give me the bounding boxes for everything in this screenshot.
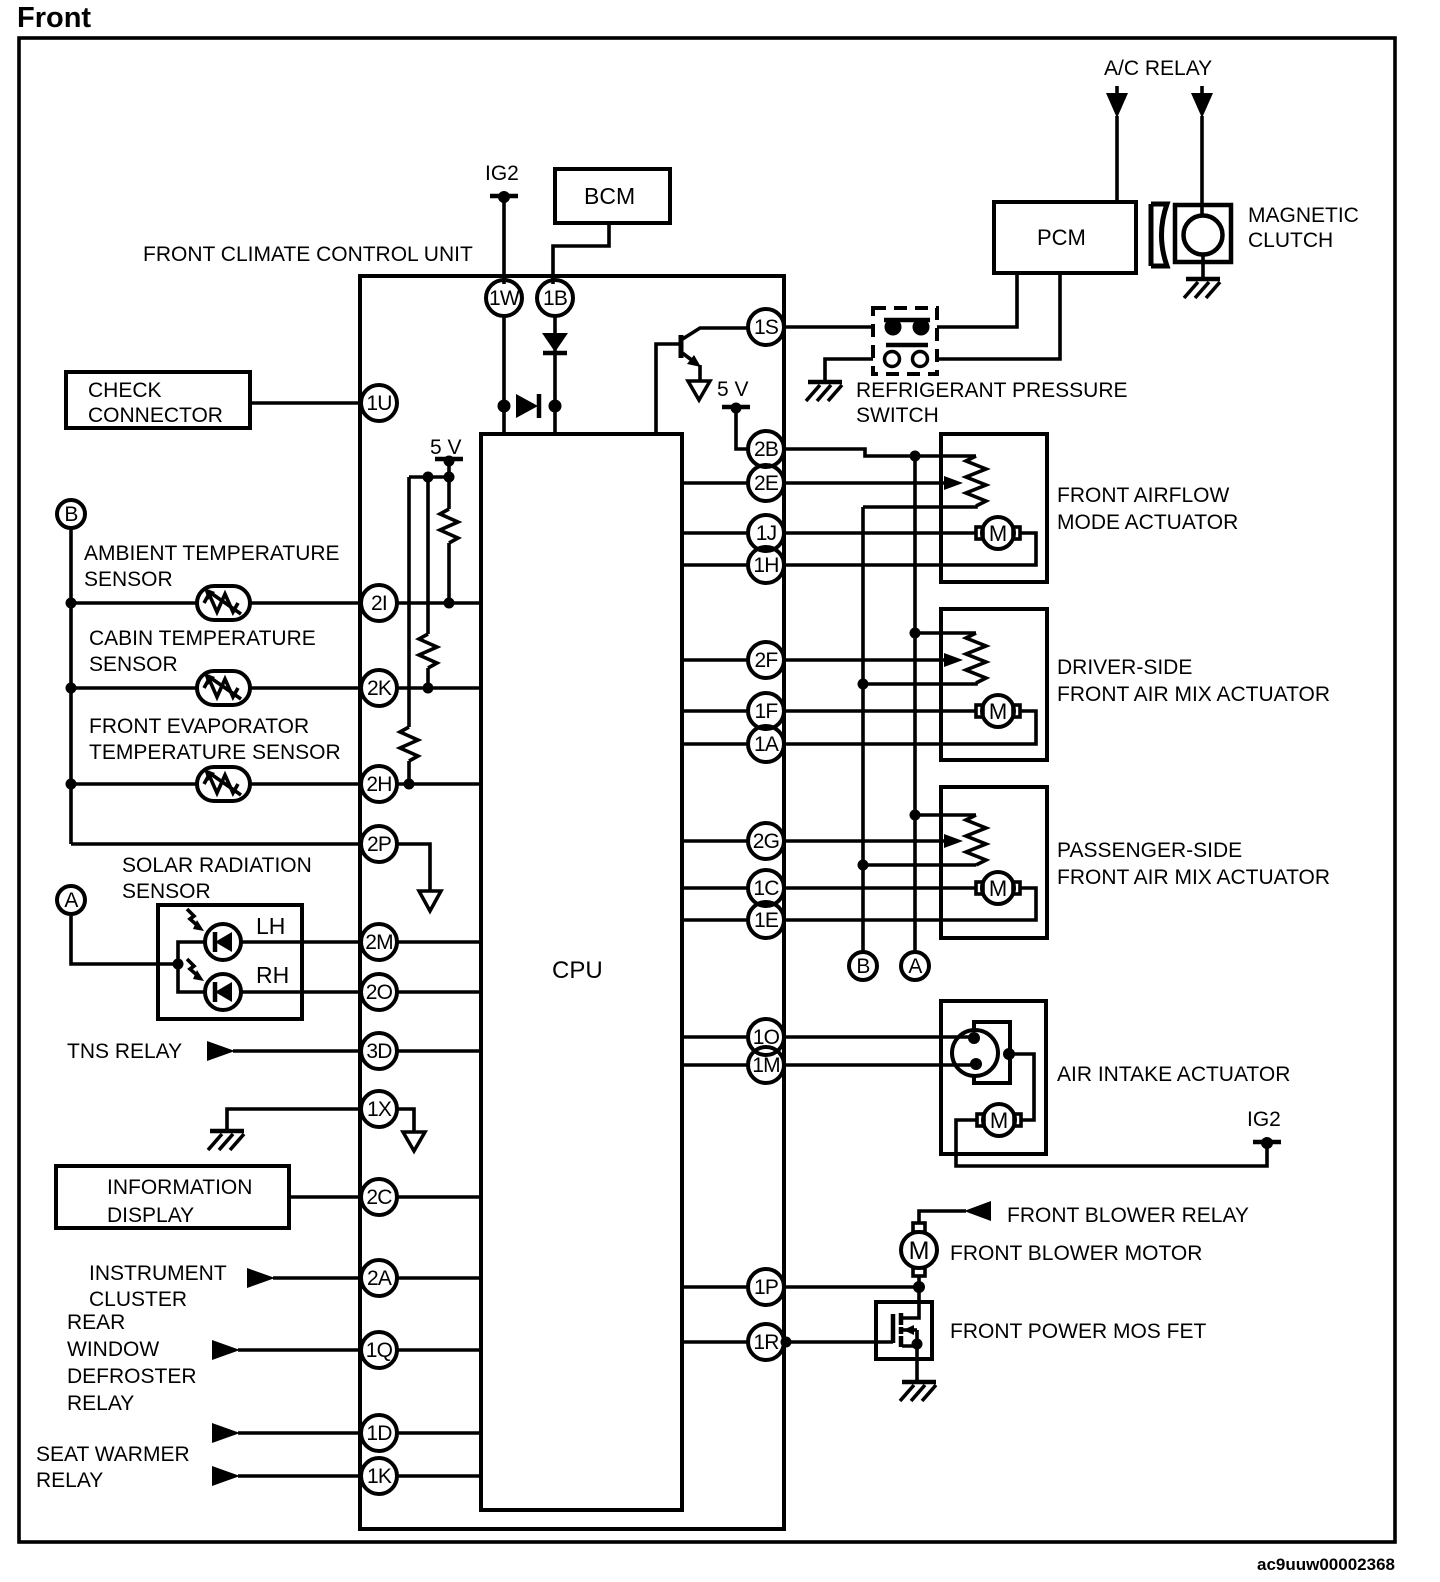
svg-text:1P: 1P [754, 1276, 778, 1299]
wire pressure switch to PCM (lower) [937, 273, 1060, 359]
label diagram code [1257, 1555, 1395, 1574]
svg-text:SOLAR RADIATION: SOLAR RADIATION [122, 854, 312, 877]
MOSFET Q2 [893, 1302, 923, 1382]
label front evaporator temperature sensor [89, 715, 341, 764]
svg-text:PASSENGER-SIDE: PASSENGER-SIDE [1057, 839, 1242, 862]
photodiode LH [187, 909, 241, 960]
potentiometer (driver-side air mix actuator) [863, 633, 986, 684]
power 5V (to 2B) [717, 378, 750, 414]
svg-text:IG2: IG2 [1247, 1108, 1281, 1131]
svg-text:CPU: CPU [552, 957, 603, 984]
svg-text:SWITCH: SWITCH [856, 404, 939, 427]
arrow instrument cluster [247, 1268, 275, 1288]
pressure switch upper contacts (closed) [884, 319, 930, 336]
node B (bus bottom) [849, 952, 877, 980]
wire to 1D [238, 1431, 362, 1435]
label refrigerant pressure switch [856, 379, 1128, 427]
check connector box [66, 372, 250, 428]
position switch housing (air intake actuator) [974, 1022, 1010, 1083]
pin 2P [361, 826, 397, 862]
svg-text:WINDOW: WINDOW [67, 1338, 159, 1361]
wire 1J to motor [782, 531, 976, 535]
wire bus A (vertical) [910, 456, 921, 952]
wire RH to 2O [240, 990, 362, 994]
svg-text:SENSOR: SENSOR [122, 880, 211, 903]
wire 1O to position switch [782, 1035, 974, 1039]
wire B to ambient sensor [71, 601, 198, 605]
svg-text:Front: Front [17, 2, 91, 34]
power 5V (internal pull-ups) [409, 436, 463, 483]
pin 2B [748, 431, 784, 467]
pin 2H [361, 766, 397, 802]
wire 1W to CPU [502, 315, 506, 434]
ground (open triangle below Q1 emitter) [688, 381, 710, 400]
svg-text:1S: 1S [754, 316, 779, 339]
wire B bus down [66, 528, 77, 844]
power IG2 (air intake) [1247, 1108, 1281, 1149]
front power MOS FET box [876, 1302, 932, 1359]
wire cabin sensor to 2K [250, 686, 362, 690]
power IG2 (top) [485, 162, 519, 203]
wire 1F to CPU [682, 709, 749, 713]
label solar radiation sensor [122, 854, 312, 903]
svg-text:2E: 2E [754, 472, 779, 495]
wire 1P to CPU [682, 1285, 749, 1289]
diode D2 (horizontal 1W to 1B) [498, 394, 562, 418]
motor M (front blower motor) [901, 1223, 937, 1276]
svg-text:1M: 1M [752, 1054, 780, 1077]
pin 1F [748, 693, 784, 729]
svg-text:FRONT AIR MIX ACTUATOR: FRONT AIR MIX ACTUATOR [1057, 683, 1330, 706]
svg-text:SENSOR: SENSOR [89, 653, 178, 676]
arrow seat warmer relay (1K) [212, 1466, 240, 1486]
svg-text:5 V: 5 V [430, 436, 462, 459]
ground (MOS FET source) [900, 1382, 936, 1401]
photodiode RH [187, 959, 241, 1010]
wire pressure switch to PCM (upper) [937, 273, 1017, 327]
arrow front blower relay [964, 1201, 991, 1221]
svg-text:SEAT WARMER: SEAT WARMER [36, 1443, 190, 1466]
resistor R1 (pull-up to 2I) [440, 477, 458, 609]
wire 2G wiper [782, 834, 963, 848]
wire 1H to motor [782, 533, 1036, 565]
svg-text:DEFROSTER: DEFROSTER [67, 1365, 197, 1388]
pin 1C [748, 870, 784, 906]
wire 2F to CPU [682, 658, 749, 662]
wire 1E to motor [782, 888, 1036, 920]
svg-text:2B: 2B [754, 438, 778, 461]
thermistor (cabin temperature sensor) [197, 671, 250, 705]
wire 1P to blower motor [782, 1285, 919, 1289]
wire BCM to 1B [553, 223, 609, 284]
wire blower motor to MOS FET drain [913, 1276, 925, 1302]
wire 1S to pressure switch [782, 325, 873, 329]
svg-text:RELAY: RELAY [36, 1469, 103, 1492]
label A/C relay [1104, 57, 1212, 80]
label front blower motor [950, 1242, 1202, 1265]
motor M (air intake actuator) [977, 1104, 1021, 1136]
wire 2O to CPU [396, 990, 481, 994]
wire 2F wiper [782, 653, 963, 667]
svg-text:1W: 1W [489, 287, 520, 310]
pin 2E [748, 465, 784, 501]
svg-text:REFRIGERANT PRESSURE: REFRIGERANT PRESSURE [856, 379, 1128, 402]
label instrument cluster [89, 1262, 227, 1311]
ground (magnetic clutch) [1184, 279, 1220, 298]
svg-text:1U: 1U [366, 392, 391, 415]
ground (open triangle at 1X) [403, 1132, 425, 1151]
CPU U1 [481, 434, 682, 1510]
wire A to photodiodes [71, 914, 206, 992]
wire 2G to CPU [682, 839, 749, 843]
arrow from A/C relay (left) [1106, 86, 1128, 118]
label front blower relay [1007, 1204, 1249, 1227]
wire information display to 2C [289, 1195, 362, 1199]
svg-text:M: M [989, 876, 1007, 901]
wire TNS relay to 3D [233, 1049, 362, 1053]
svg-text:B: B [64, 503, 77, 526]
label LH [256, 913, 285, 939]
svg-text:B: B [856, 955, 869, 978]
node B (left) [57, 500, 85, 528]
svg-text:1Q: 1Q [366, 1339, 393, 1362]
svg-text:ac9uuw00002368: ac9uuw00002368 [1257, 1555, 1395, 1574]
svg-text:M: M [989, 521, 1007, 546]
pin 1H [748, 547, 784, 583]
wire 2I to CPU [396, 601, 481, 605]
wire 1Q to CPU [396, 1348, 481, 1352]
wire 1C to CPU [682, 886, 749, 890]
wire 1A to motor [782, 711, 1036, 744]
wire blower motor to front blower relay [919, 1211, 966, 1223]
svg-text:M: M [909, 1237, 930, 1265]
wire check connector to 1U [250, 401, 362, 405]
wire 1O to CPU [682, 1035, 749, 1039]
svg-text:2A: 2A [367, 1267, 392, 1290]
wire 1B down [553, 315, 557, 434]
wire A/C relay to magnetic clutch [1200, 116, 1204, 218]
pressure switch lower contacts (open) [885, 345, 929, 367]
thermistor (front evaporator temperature sensor) [197, 767, 250, 801]
pin 1R [748, 1324, 784, 1360]
diode D1 (vertical on 1B line) [542, 333, 568, 353]
label FRONT CLIMATE CONTROL UNIT [143, 243, 473, 266]
svg-text:CLUTCH: CLUTCH [1248, 229, 1333, 252]
wire 1R to CPU [682, 1340, 749, 1344]
pin 2A [361, 1260, 397, 1296]
wire 1D to CPU [396, 1431, 481, 1435]
svg-text:REAR: REAR [67, 1311, 125, 1334]
svg-text:CONNECTOR: CONNECTOR [88, 404, 223, 427]
label magnetic clutch [1248, 204, 1359, 252]
pin 1E [748, 902, 784, 938]
svg-text:2M: 2M [365, 931, 393, 954]
pin 1X [361, 1091, 397, 1127]
wire 2A to CPU [396, 1276, 481, 1280]
svg-text:TNS RELAY: TNS RELAY [67, 1040, 182, 1063]
svg-text:1B: 1B [543, 287, 567, 310]
arrow rear window defroster relay [212, 1340, 240, 1360]
label RH [256, 962, 289, 988]
svg-text:3D: 3D [366, 1040, 392, 1063]
pin 2O [361, 974, 397, 1010]
svg-text:FRONT AIRFLOW: FRONT AIRFLOW [1057, 484, 1229, 507]
wire 1F to motor [782, 709, 976, 713]
pin 1U [361, 385, 397, 421]
svg-text:FRONT AIR MIX ACTUATOR: FRONT AIR MIX ACTUATOR [1057, 866, 1330, 889]
svg-text:2G: 2G [753, 830, 779, 853]
svg-text:5 V: 5 V [717, 378, 749, 401]
svg-text:1R: 1R [753, 1331, 779, 1354]
svg-text:DISPLAY: DISPLAY [107, 1204, 194, 1227]
svg-text:1F: 1F [755, 700, 778, 723]
svg-text:RELAY: RELAY [67, 1392, 134, 1415]
svg-text:DRIVER-SIDE: DRIVER-SIDE [1057, 656, 1192, 679]
ground (chassis, left of 1X) [208, 1131, 244, 1150]
svg-text:INSTRUMENT: INSTRUMENT [89, 1262, 227, 1285]
svg-text:CABIN TEMPERATURE: CABIN TEMPERATURE [89, 627, 316, 650]
wire to 1K [238, 1474, 362, 1478]
pin 2M [361, 924, 397, 960]
pin 1B [537, 280, 573, 316]
label driver-side front air mix actuator [1057, 656, 1330, 706]
svg-text:LH: LH [256, 913, 285, 939]
svg-text:FRONT BLOWER MOTOR: FRONT BLOWER MOTOR [950, 1242, 1202, 1265]
resistor R3 (pull-up to 2H) [400, 477, 418, 790]
wire 2M to CPU [396, 940, 481, 944]
svg-text:1K: 1K [367, 1465, 392, 1488]
svg-text:1H: 1H [753, 554, 778, 577]
svg-text:1D: 1D [366, 1422, 392, 1445]
svg-text:PCM: PCM [1037, 225, 1086, 250]
arrow from A/C relay (right) [1191, 86, 1213, 118]
wire 1E to CPU [682, 918, 749, 922]
pin 1D [361, 1415, 397, 1451]
transistor Q1 [656, 328, 748, 434]
wire B to cabin sensor [71, 686, 198, 690]
svg-text:1A: 1A [754, 733, 779, 756]
title Front [17, 2, 91, 34]
wire A/C relay to PCM [1115, 116, 1119, 202]
svg-text:2K: 2K [367, 677, 392, 700]
driver-side front air mix actuator box [941, 609, 1047, 760]
thermistor (ambient temperature sensor) [197, 586, 250, 620]
wire 2B to actuator resistor network [782, 449, 976, 462]
arrow seat warmer relay (1D) [212, 1423, 240, 1443]
wire ambient sensor to 2I [250, 601, 362, 605]
svg-text:FRONT BLOWER RELAY: FRONT BLOWER RELAY [1007, 1204, 1249, 1227]
label TNS relay [67, 1040, 182, 1063]
arrow TNS relay [207, 1041, 235, 1061]
node A (left) [57, 886, 85, 914]
wire 5V to 2B [736, 408, 749, 449]
svg-text:RH: RH [256, 962, 289, 988]
label front power MOS FET [950, 1320, 1206, 1343]
svg-text:FRONT EVAPORATOR: FRONT EVAPORATOR [89, 715, 309, 738]
svg-text:A: A [908, 955, 922, 978]
svg-text:2H: 2H [366, 773, 391, 796]
svg-text:CLUSTER: CLUSTER [89, 1288, 187, 1311]
front climate control unit box [360, 276, 784, 1529]
position switch rotor (air intake actuator) [952, 1030, 998, 1076]
wire 1M to CPU [682, 1063, 749, 1067]
pin 1S [748, 309, 784, 345]
wire B to evaporator sensor [71, 782, 198, 786]
refrigerant pressure switch (dashed box) [873, 308, 937, 374]
wire evaporator sensor to 2H [250, 782, 362, 786]
wire 1M to position switch [782, 1063, 976, 1067]
label air intake actuator [1057, 1063, 1290, 1086]
svg-text:CHECK: CHECK [88, 379, 162, 402]
motor M (passenger-side air mix actuator) [976, 872, 1020, 904]
label passenger-side front air mix actuator [1057, 839, 1330, 889]
wire 1H to CPU [682, 563, 749, 567]
node A (bus bottom) [901, 952, 929, 980]
motor M (front airflow mode actuator) [976, 517, 1020, 549]
wire 1J to CPU [682, 531, 749, 535]
wire instrument cluster to 2A [273, 1276, 362, 1280]
svg-text:1J: 1J [756, 522, 777, 545]
wire clutch to ground [1201, 254, 1205, 279]
front airflow mode actuator box [941, 434, 1047, 582]
wire 3D to CPU [396, 1049, 481, 1053]
wire 2E to CPU [682, 481, 749, 485]
magnetic clutch rotor circle [1184, 216, 1223, 255]
svg-text:M: M [990, 1108, 1008, 1133]
wire bus B (vertical) [858, 507, 869, 952]
svg-text:1X: 1X [367, 1098, 392, 1121]
svg-text:2C: 2C [366, 1186, 392, 1209]
ground (pressure switch) [806, 382, 842, 401]
svg-text:A/C RELAY: A/C RELAY [1104, 57, 1212, 80]
svg-text:BCM: BCM [584, 183, 635, 209]
label seat warmer relay [36, 1443, 190, 1492]
svg-text:M: M [989, 699, 1007, 724]
pin 1P [748, 1269, 784, 1305]
pin 1J [748, 515, 784, 551]
wire 1R to MOSFET gate [781, 1337, 894, 1348]
wire defroster relay to 1Q [238, 1348, 362, 1352]
pin 1O [748, 1019, 784, 1055]
information display box [56, 1166, 289, 1228]
ground (open triangle at 2P) [419, 891, 441, 911]
solar radiation sensor box [158, 905, 302, 1019]
wire 2H to CPU [396, 782, 481, 786]
svg-text:FRONT CLIMATE CONTROL UNIT: FRONT CLIMATE CONTROL UNIT [143, 243, 473, 266]
svg-text:2I: 2I [371, 592, 387, 615]
wire 1A to CPU [682, 742, 749, 746]
pin 1K [361, 1458, 397, 1494]
label rear window defroster relay [67, 1311, 197, 1415]
wire 1C to motor [782, 886, 976, 890]
svg-text:SENSOR: SENSOR [84, 568, 173, 591]
resistor R2 (pull-up to 2K) [419, 477, 437, 694]
belt symbol (magnetic clutch pulley) [1151, 204, 1167, 266]
svg-text:MAGNETIC: MAGNETIC [1248, 204, 1359, 227]
svg-text:INFORMATION: INFORMATION [107, 1176, 252, 1199]
svg-text:1C: 1C [753, 877, 779, 900]
wire 2P to internal ground [396, 844, 430, 890]
wire 2K to CPU [396, 686, 481, 690]
wire 1K to CPU [396, 1474, 481, 1478]
svg-text:2F: 2F [755, 649, 778, 672]
wire 1X to chassis ground [227, 1109, 362, 1131]
label front airflow mode actuator [1057, 484, 1238, 534]
svg-text:MODE ACTUATOR: MODE ACTUATOR [1057, 511, 1238, 534]
wire motor to IG2 [956, 1120, 1267, 1166]
pin 3D [361, 1033, 397, 1069]
pin 1A [748, 726, 784, 762]
wire IG2 to 1W [502, 197, 506, 284]
passenger-side front air mix actuator box [941, 787, 1047, 938]
potentiometer (front airflow mode actuator) [863, 456, 986, 507]
air intake actuator box [941, 1001, 1046, 1154]
pin 1M [748, 1047, 784, 1083]
pin 1Q [361, 1332, 397, 1368]
wire position switch to motor [1009, 1054, 1034, 1120]
svg-text:A: A [64, 889, 78, 912]
svg-text:TEMPERATURE SENSOR: TEMPERATURE SENSOR [89, 741, 341, 764]
svg-text:IG2: IG2 [485, 162, 519, 185]
pin 1W [486, 280, 522, 316]
svg-text:1E: 1E [754, 909, 779, 932]
pin 2K [361, 670, 397, 706]
position switch output contact [1003, 1048, 1015, 1060]
motor M (driver-side air mix actuator) [976, 695, 1020, 727]
potentiometer (passenger-side air mix actuator) [863, 815, 986, 865]
svg-text:2P: 2P [367, 833, 391, 856]
svg-text:AMBIENT TEMPERATURE: AMBIENT TEMPERATURE [84, 542, 340, 565]
svg-text:2O: 2O [366, 981, 393, 1004]
pin 2I [361, 585, 397, 621]
label cabin temperature sensor [89, 627, 316, 676]
label ambient temperature sensor [84, 542, 340, 591]
wire B to 2P [71, 842, 362, 846]
svg-text:FRONT POWER MOS FET: FRONT POWER MOS FET [950, 1320, 1206, 1343]
wire 2C to CPU [396, 1195, 481, 1199]
wire 1X to internal ground [396, 1109, 414, 1131]
PCM box [994, 202, 1136, 273]
pin 2C [361, 1179, 397, 1215]
magnetic clutch coil box [1175, 205, 1231, 262]
wire LH to 2M [240, 940, 362, 944]
wire pressure switch to ground [825, 359, 873, 382]
wire 2E wiper [782, 476, 963, 490]
BCM box [555, 169, 670, 223]
pin 2G [748, 823, 784, 859]
svg-text:AIR INTAKE ACTUATOR: AIR INTAKE ACTUATOR [1057, 1063, 1290, 1086]
pin 2F [748, 642, 784, 678]
